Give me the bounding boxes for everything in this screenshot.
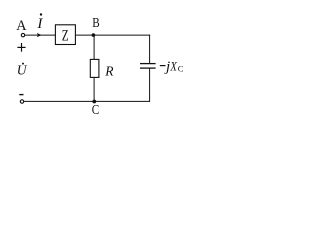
capacitor plates [140, 63, 156, 65]
svg-text:C: C [92, 102, 99, 117]
node C (junction dot) [92, 100, 96, 104]
terminal A (open circle) [21, 33, 24, 36]
wire: capacitor down to bottom rail [149, 69, 151, 102]
wire: terminal A to box Z [25, 34, 56, 36]
svg-text:R: R [104, 64, 114, 79]
wire: node B down to resistor [93, 35, 95, 59]
capacitor value label -jXc [160, 59, 184, 75]
minus sign [19, 94, 23, 96]
svg-text:A: A [16, 18, 27, 34]
svg-text:X: X [169, 60, 177, 74]
resistor R (rectangle) [90, 59, 99, 77]
node B (junction dot) [92, 33, 96, 37]
svg-text:I: I [36, 16, 43, 32]
svg-text:C: C [178, 63, 184, 73]
svg-text:Z: Z [62, 27, 69, 44]
wire: box Z to top-right corner [75, 34, 150, 36]
svg-text:U: U [17, 63, 28, 78]
wire: bottom rail [24, 100, 150, 102]
impedance box Z [55, 25, 75, 45]
svg-text:B: B [92, 15, 99, 30]
wire: resistor down to node C [93, 77, 95, 102]
current arrow on wire [37, 33, 42, 37]
terminal (bottom, open circle) [20, 100, 23, 103]
plus sign [17, 43, 25, 52]
wire: right branch (top corner down to capacitor) [149, 35, 151, 64]
